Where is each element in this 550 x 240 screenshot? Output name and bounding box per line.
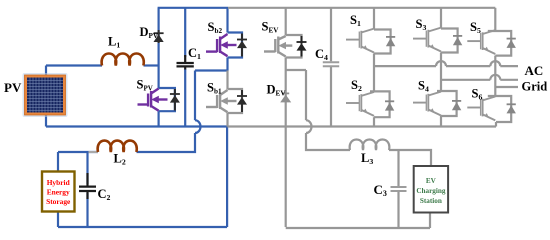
wire S_EV bottom through D_EV node down to EV- rail: [285, 58, 287, 228]
wire EV box bottom pin: [429, 213, 431, 229]
wire hop: L2 riser jumps over blue DC- rail: [195, 120, 201, 133]
wire leg C mid: S5 bottom down to S6 (crosses phases A,B): [494, 56, 496, 96]
wire S_b2 leg from rail to cell top: [226, 8, 228, 33]
wire leg B bottom: S4 to DC- rail: [440, 116, 442, 127]
inductor L3: [350, 140, 390, 151]
wire phase A line: [374, 65, 518, 67]
wire hop: phase A over leg B: [436, 61, 446, 66]
wire leg B mid: S3 bottom down to S4 (crosses phase A): [440, 53, 442, 92]
wire EV- bottom rail: [286, 227, 430, 229]
wire S_b1 leg: mid node to cell top (gray): [226, 71, 228, 90]
wire L3 feed riser upper: [305, 70, 307, 120]
svg-text:Energy: Energy: [47, 187, 70, 196]
wire HES+ horizontal to L2 coil: [58, 151, 98, 153]
wire S6 bottom jog to DC- rail: [495, 122, 497, 127]
wire L2 riser upper (corner down to hop): [194, 71, 196, 121]
EV Charging Station box: [414, 166, 448, 213]
diode of S1 cell: [386, 37, 395, 46]
svg-text:PV: PV: [4, 80, 22, 95]
wire leg A bottom: S2 to DC- rail: [373, 117, 375, 126]
transistor S_b1 (IGBT, gray): [206, 90, 237, 112]
wire C4 bottom lead to DC- rail: [330, 67, 332, 127]
wire S3 cell loop: [441, 29, 458, 53]
wire gray stub left of L2: [89, 151, 99, 153]
wire S1 cell loop: [374, 30, 391, 54]
wire C3 top lead: [397, 150, 399, 186]
wire PV top pin up to L1 line: [45, 66, 47, 76]
diode of S5 cell: [507, 39, 516, 48]
wire hop: L3 feed jumps over gray DC- rail: [306, 120, 312, 133]
diode of S3 cell: [453, 36, 462, 45]
wire C3 bottom lead to EV- rail: [397, 192, 399, 228]
wire L1 right to D_PV node: [144, 64, 159, 66]
wire mid-node horizontal to L2 riser corner: [195, 69, 229, 71]
wire PV+ to L1 left: [46, 64, 102, 66]
wire L2 riser lower to corner, then left to L2 coil: [137, 133, 196, 152]
transistor S6 (IGBT): [467, 97, 495, 121]
svg-text:AC: AC: [525, 63, 544, 78]
diode of S_PV cell: [170, 89, 180, 111]
wire S5 cell loop: [488, 31, 511, 56]
diode of S_EV cell: [297, 36, 307, 57]
wire S_b1 bottom to DC- rail: [226, 113, 228, 127]
wire hop: phase A over leg C: [490, 61, 500, 66]
svg-text:Grid: Grid: [522, 80, 548, 94]
wire S2 cell loop: [370, 91, 390, 117]
wire S4 cell loop: [437, 91, 457, 116]
wire HES return riser up to DC- rail: [226, 127, 228, 228]
transistor S1 (IGBT): [346, 29, 374, 53]
wire L3 feed: T-node right then down: [286, 69, 306, 71]
wire blue DC- rail: [46, 125, 228, 127]
wire HES- bottom rail: [58, 226, 227, 228]
svg-text:Charging: Charging: [416, 187, 446, 195]
transistor S3 (IGBT): [413, 28, 441, 52]
diode of S4 cell: [452, 101, 461, 110]
wire leg A mid: S1 bottom to S2 top: [373, 54, 375, 92]
wire S_PV cell loop: [159, 88, 175, 111]
wire leg C top: rail corner to S5: [494, 8, 496, 31]
transistor S5 (IGBT): [467, 30, 495, 54]
wire S_b2 cell loop: [228, 33, 243, 58]
wire HES bottom pin riser: [57, 212, 59, 228]
wire phase C line: [495, 86, 518, 88]
wire D_PV branch vertical (node L1 up to top rail): [158, 8, 160, 66]
capacitor C4: [323, 62, 339, 66]
capacitor C1: [177, 55, 194, 70]
diode of S2 cell: [385, 101, 394, 110]
transistor S2 (IGBT): [346, 92, 374, 116]
wire S_EV leg from rail to cell top: [285, 8, 287, 35]
transistor S_b2 (IGBT, purple): [206, 34, 237, 56]
Hybrid Energy Storage box: [42, 172, 75, 212]
wire S_b1 cell loop: [228, 89, 243, 113]
diode of S6 cell: [507, 104, 516, 113]
diode D_EV: [280, 93, 291, 102]
capacitor C3: [391, 187, 407, 191]
diode D_PV: [154, 30, 164, 43]
wire PV bottom pin down to DC- rail: [45, 115, 47, 127]
wire HES top pin riser: [57, 152, 59, 172]
svg-text:Storage: Storage: [46, 197, 71, 206]
wire S_PV node down from L1/D_PV junction to cell top: [158, 66, 160, 89]
wire phase B line: [441, 79, 518, 81]
wire L3 feed riser lower, corner right to L3 coil: [306, 133, 350, 150]
wire S_PV bottom to DC- rail: [158, 111, 160, 126]
transistor S_PV (IGBT, purple): [138, 89, 168, 111]
svg-text:EV: EV: [426, 177, 437, 185]
wire C2 top lead: [86, 152, 88, 184]
wire C1 top lead from rail: [184, 8, 186, 57]
diode of S_b1 cell: [237, 90, 247, 112]
capacitor C2: [79, 173, 96, 199]
svg-text:Station: Station: [420, 197, 442, 205]
inductor L2: [98, 141, 137, 152]
wire gray DC- rail: [228, 125, 497, 127]
wire top DC+ rail (blue part): [158, 7, 228, 9]
wire C2 bottom lead: [86, 193, 88, 227]
wire C4 top lead from rail: [330, 8, 332, 62]
svg-text:Hybrid: Hybrid: [47, 178, 71, 187]
wire leg B top: rail to S3: [440, 8, 442, 29]
wire C1 bottom lead down to DC- rail: [184, 69, 186, 127]
diode of S_b2 cell: [237, 34, 247, 57]
wire leg A top: rail to S1: [373, 8, 375, 30]
inductor L1: [102, 54, 144, 66]
wire S6 cell loop: [488, 96, 511, 122]
wire S_EV cell loop: [286, 35, 302, 58]
wire L3 right to EV box top: [389, 150, 431, 166]
PV panel: [23, 73, 68, 117]
wire top DC+ rail (gray part) to leg C corner: [228, 7, 495, 9]
transistor S4 (IGBT): [413, 92, 441, 116]
wire hop: phase B over leg C: [490, 75, 500, 80]
wire S_b2 bottom to b-leg mid node: [226, 58, 228, 71]
transistor S_EV (IGBT, gray): [264, 36, 292, 57]
